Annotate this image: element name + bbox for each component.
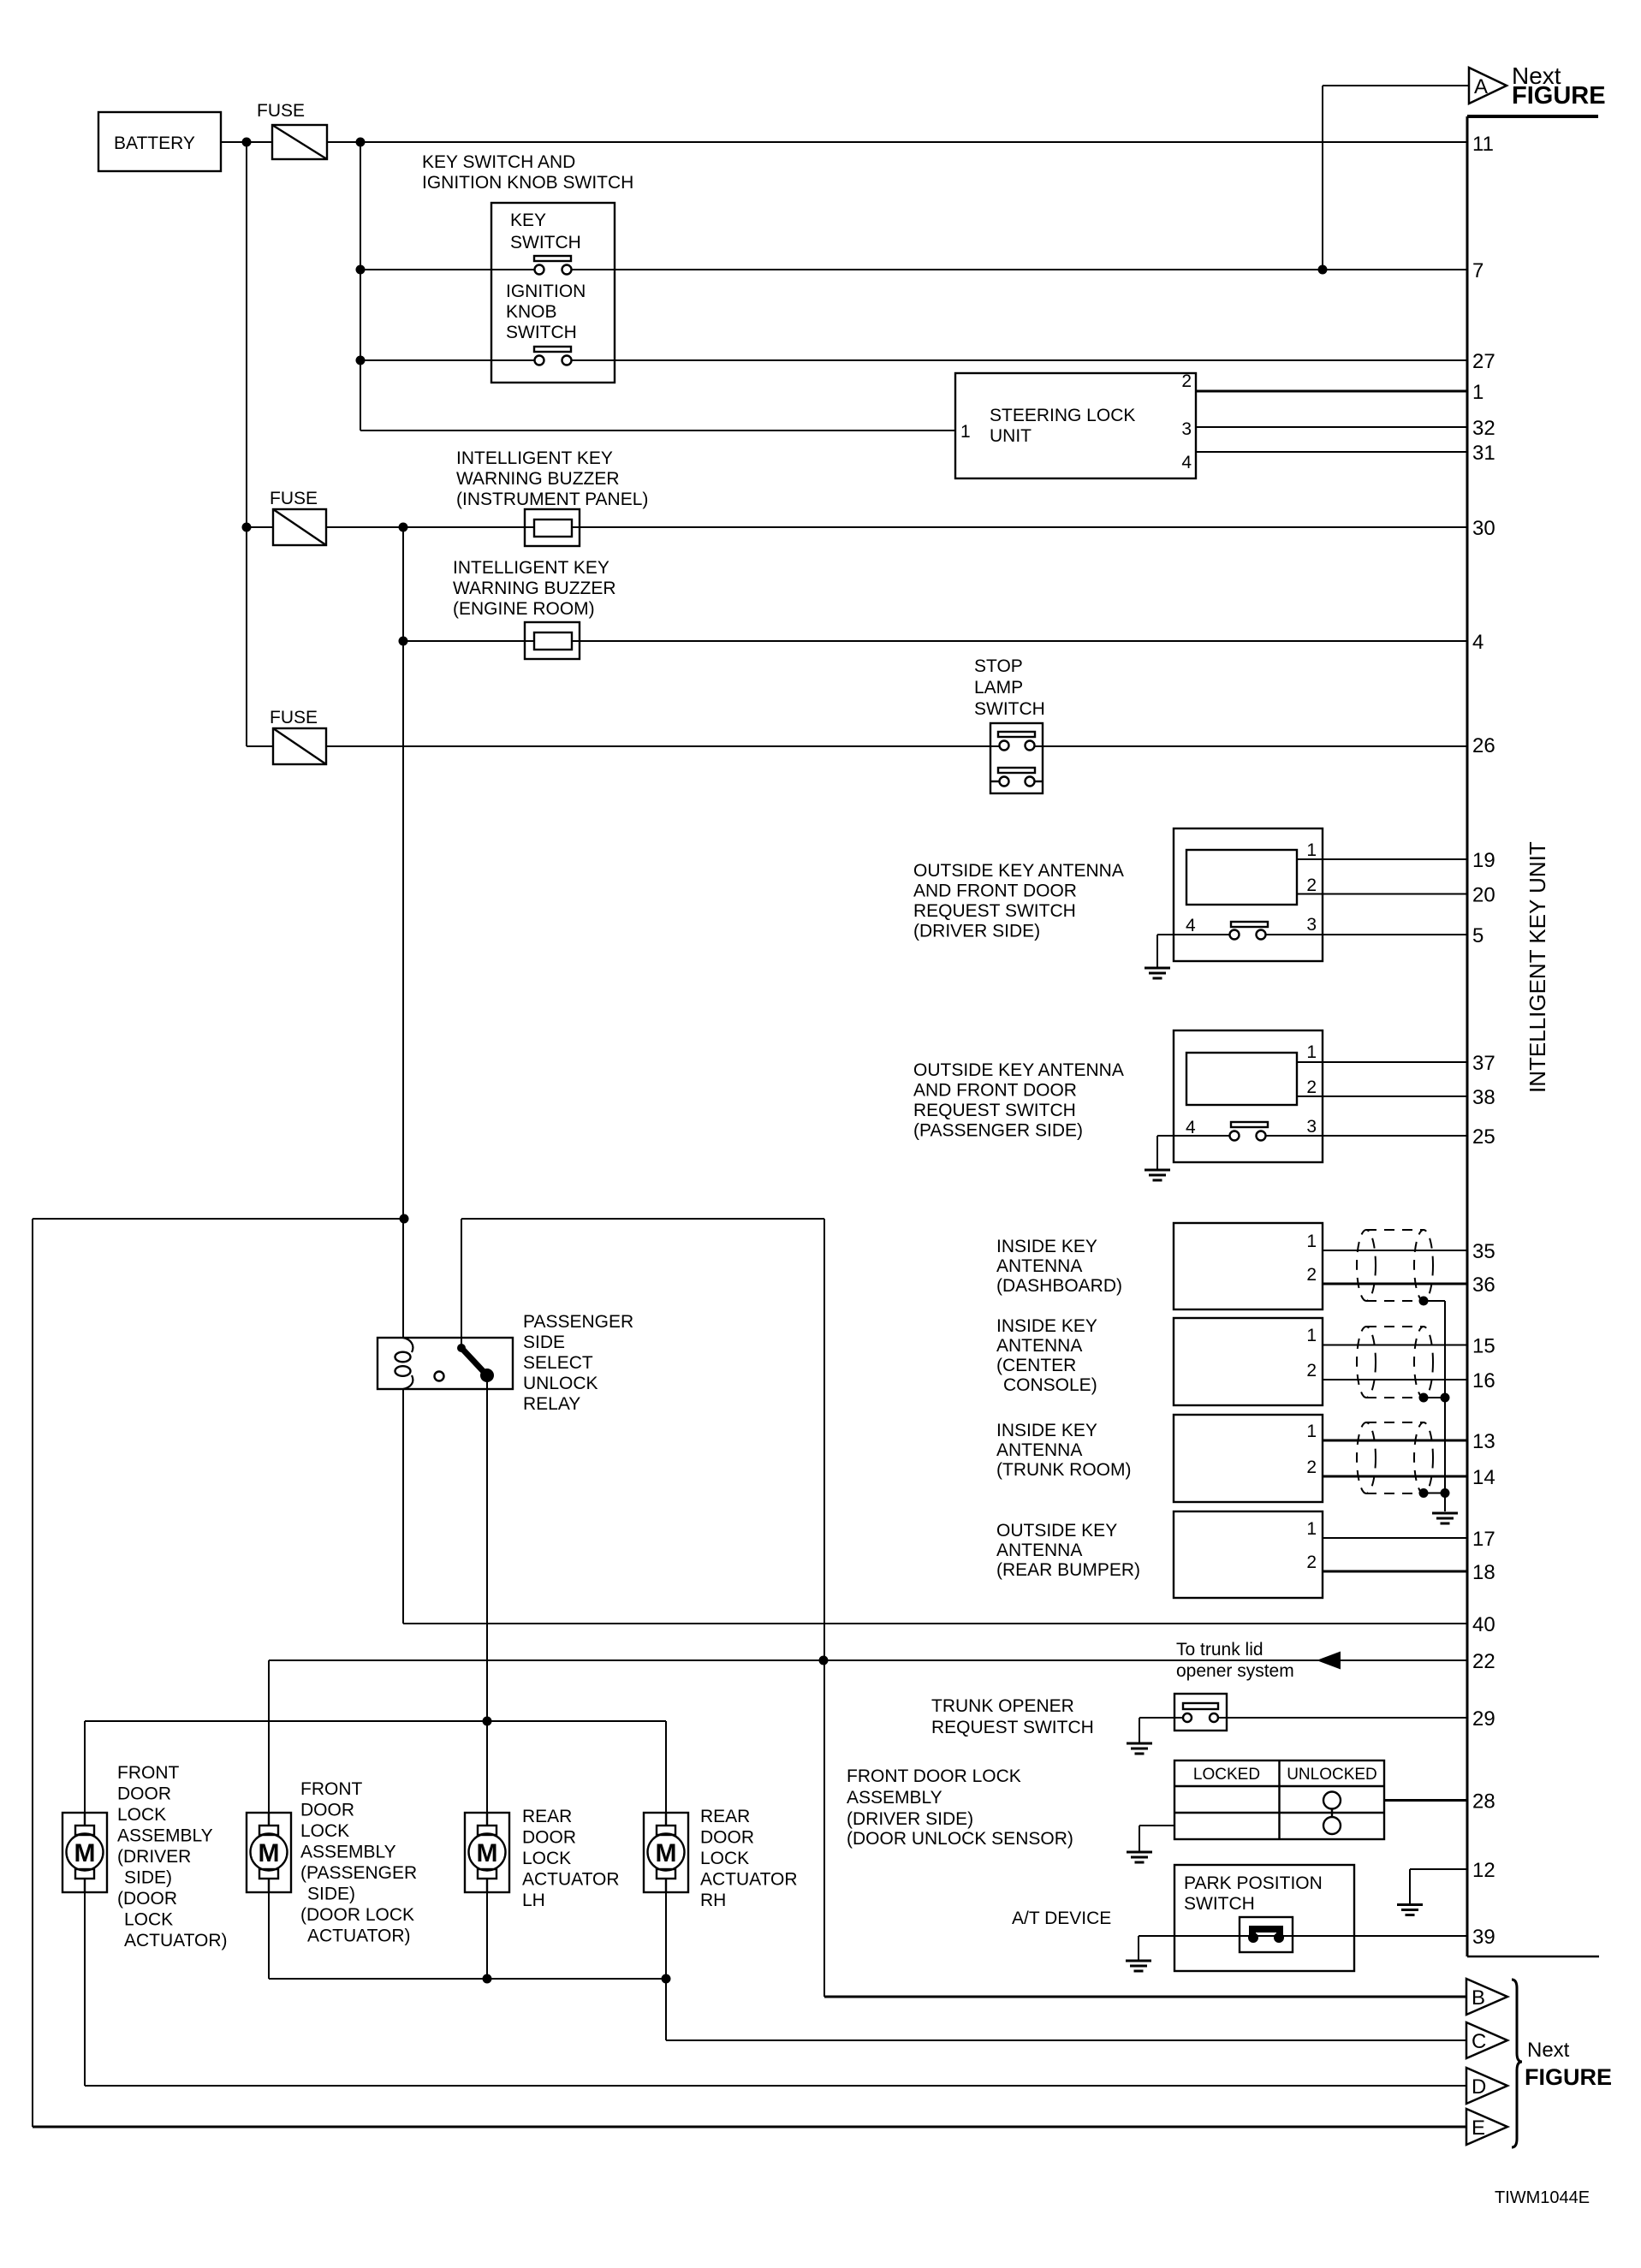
svg-text:ASSEMBLY: ASSEMBLY [117, 1826, 213, 1846]
svg-text:LAMP: LAMP [974, 678, 1023, 698]
svg-text:(DRIVER SIDE): (DRIVER SIDE) [847, 1809, 973, 1829]
svg-text:KEY: KEY [510, 211, 546, 230]
svg-text:REAR: REAR [522, 1807, 572, 1826]
svg-text:REQUEST SWITCH: REQUEST SWITCH [913, 1101, 1076, 1120]
svg-text:11: 11 [1472, 133, 1494, 156]
svg-text:27: 27 [1472, 350, 1495, 373]
svg-text:ASSEMBLY: ASSEMBLY [847, 1788, 942, 1808]
svg-text:32: 32 [1472, 417, 1495, 440]
svg-text:ANTENNA: ANTENNA [996, 1336, 1082, 1356]
svg-text:(DOOR UNLOCK SENSOR): (DOOR UNLOCK SENSOR) [847, 1829, 1073, 1849]
svg-text:B: B [1472, 1986, 1485, 2010]
svg-text:LOCK: LOCK [300, 1821, 349, 1841]
svg-text:LOCKED: LOCKED [1193, 1766, 1260, 1784]
svg-text:2: 2 [1306, 1078, 1317, 1097]
svg-text:29: 29 [1472, 1707, 1495, 1731]
svg-text:AND FRONT DOOR: AND FRONT DOOR [913, 882, 1077, 901]
svg-text:3: 3 [1306, 1117, 1317, 1137]
svg-text:LOCK: LOCK [700, 1849, 749, 1868]
svg-text:(INSTRUMENT PANEL): (INSTRUMENT PANEL) [456, 490, 648, 509]
svg-text:SIDE: SIDE [523, 1333, 565, 1352]
svg-text:FRONT DOOR LOCK: FRONT DOOR LOCK [847, 1766, 1021, 1786]
svg-text:38: 38 [1472, 1086, 1495, 1109]
svg-text:1: 1 [1306, 1519, 1317, 1539]
svg-text:REQUEST SWITCH: REQUEST SWITCH [913, 901, 1076, 921]
svg-text:(DOOR LOCK: (DOOR LOCK [300, 1905, 414, 1925]
svg-text:INSIDE KEY: INSIDE KEY [996, 1316, 1097, 1336]
svg-text:1: 1 [1306, 1326, 1317, 1345]
svg-text:FRONT: FRONT [117, 1763, 179, 1783]
svg-text:RELAY: RELAY [523, 1394, 580, 1414]
svg-text:1: 1 [1306, 840, 1317, 860]
svg-text:ANTENNA: ANTENNA [996, 1440, 1082, 1460]
svg-text:ACTUATOR: ACTUATOR [522, 1870, 620, 1890]
svg-text:INTELLIGENT KEY UNIT: INTELLIGENT KEY UNIT [1525, 841, 1550, 1093]
svg-text:WARNING BUZZER: WARNING BUZZER [453, 579, 616, 598]
svg-text:KEY SWITCH AND: KEY SWITCH AND [422, 152, 575, 172]
svg-text:INSIDE KEY: INSIDE KEY [996, 1237, 1097, 1256]
svg-text:M: M [656, 1839, 677, 1867]
svg-text:KNOB: KNOB [506, 302, 557, 322]
svg-text:2: 2 [1306, 876, 1317, 895]
svg-text:DOOR: DOOR [522, 1828, 576, 1848]
svg-text:SWITCH: SWITCH [510, 233, 581, 252]
svg-text:7: 7 [1472, 259, 1483, 282]
svg-text:TIWM1044E: TIWM1044E [1495, 2188, 1590, 2207]
svg-text:STOP: STOP [974, 656, 1023, 676]
svg-text:IGNITION: IGNITION [506, 282, 586, 301]
svg-text:SIDE): SIDE) [124, 1868, 172, 1888]
svg-text:4: 4 [1186, 1118, 1196, 1137]
svg-text:18: 18 [1472, 1561, 1495, 1584]
svg-text:LOCK: LOCK [522, 1849, 571, 1868]
svg-text:FUSE: FUSE [270, 708, 318, 727]
svg-text:ACTUATOR): ACTUATOR) [124, 1931, 228, 1950]
svg-text:ACTUATOR: ACTUATOR [700, 1870, 798, 1890]
svg-text:CONSOLE): CONSOLE) [1003, 1375, 1097, 1395]
svg-text:ANTENNA: ANTENNA [996, 1256, 1082, 1276]
svg-text:22: 22 [1472, 1650, 1495, 1673]
svg-text:1: 1 [960, 422, 971, 442]
svg-text:OUTSIDE KEY ANTENNA: OUTSIDE KEY ANTENNA [913, 861, 1124, 881]
svg-text:5: 5 [1472, 924, 1483, 947]
svg-text:FUSE: FUSE [257, 101, 305, 121]
svg-text:2: 2 [1306, 1361, 1317, 1380]
svg-text:INTELLIGENT KEY: INTELLIGENT KEY [456, 448, 613, 468]
svg-text:SWITCH: SWITCH [506, 323, 577, 342]
svg-text:IGNITION KNOB SWITCH: IGNITION KNOB SWITCH [422, 173, 633, 193]
svg-text:15: 15 [1472, 1335, 1495, 1358]
svg-text:FIGURE: FIGURE [1525, 2064, 1612, 2090]
svg-text:REAR: REAR [700, 1807, 750, 1826]
svg-text:37: 37 [1472, 1052, 1495, 1075]
svg-text:INSIDE KEY: INSIDE KEY [996, 1421, 1097, 1440]
svg-text:19: 19 [1472, 849, 1495, 872]
svg-text:LOCK: LOCK [124, 1910, 173, 1930]
svg-text:M: M [477, 1839, 498, 1867]
svg-text:36: 36 [1472, 1274, 1495, 1297]
svg-text:FIGURE: FIGURE [1512, 82, 1606, 110]
svg-text:(PASSENGER SIDE): (PASSENGER SIDE) [913, 1121, 1083, 1141]
svg-text:OUTSIDE KEY: OUTSIDE KEY [996, 1521, 1117, 1541]
svg-text:RH: RH [700, 1891, 726, 1910]
svg-text:LOCK: LOCK [117, 1805, 166, 1825]
svg-text:OUTSIDE KEY ANTENNA: OUTSIDE KEY ANTENNA [913, 1060, 1124, 1080]
svg-text:E: E [1472, 2117, 1485, 2140]
svg-text:35: 35 [1472, 1240, 1495, 1263]
svg-text:17: 17 [1472, 1528, 1495, 1551]
svg-text:D: D [1472, 2075, 1486, 2099]
svg-text:ASSEMBLY: ASSEMBLY [300, 1843, 396, 1862]
svg-text:SWITCH: SWITCH [1184, 1894, 1255, 1914]
svg-text:(TRUNK ROOM): (TRUNK ROOM) [996, 1460, 1131, 1480]
svg-text:20: 20 [1472, 884, 1495, 907]
svg-text:3: 3 [1181, 419, 1192, 439]
svg-text:12: 12 [1472, 1859, 1495, 1882]
svg-text:SWITCH: SWITCH [974, 699, 1045, 719]
svg-text:(DRIVER SIDE): (DRIVER SIDE) [913, 922, 1040, 941]
svg-text:26: 26 [1472, 734, 1495, 757]
svg-text:opener system: opener system [1176, 1661, 1294, 1681]
svg-text:UNLOCKED: UNLOCKED [1287, 1766, 1377, 1784]
svg-text:DOOR: DOOR [700, 1828, 754, 1848]
svg-text:(CENTER: (CENTER [996, 1356, 1076, 1375]
svg-text:(REAR BUMPER): (REAR BUMPER) [996, 1560, 1140, 1580]
svg-text:40: 40 [1472, 1613, 1495, 1636]
svg-text:INTELLIGENT KEY: INTELLIGENT KEY [453, 558, 609, 578]
svg-text:(PASSENGER: (PASSENGER [300, 1863, 417, 1883]
svg-text:2: 2 [1306, 1458, 1317, 1477]
svg-text:2: 2 [1306, 1553, 1317, 1572]
svg-text:ANTENNA: ANTENNA [996, 1541, 1082, 1560]
svg-text:2: 2 [1306, 1265, 1317, 1285]
svg-text:(DOOR: (DOOR [117, 1889, 177, 1909]
svg-text:(DASHBOARD): (DASHBOARD) [996, 1276, 1122, 1296]
svg-text:1: 1 [1306, 1232, 1317, 1251]
svg-text:BATTERY: BATTERY [114, 134, 195, 153]
svg-text:FRONT: FRONT [300, 1779, 362, 1799]
svg-text:13: 13 [1472, 1430, 1495, 1453]
svg-text:30: 30 [1472, 517, 1495, 540]
svg-text:14: 14 [1472, 1466, 1495, 1489]
svg-text:28: 28 [1472, 1790, 1495, 1814]
svg-text:WARNING BUZZER: WARNING BUZZER [456, 469, 620, 489]
svg-text:3: 3 [1306, 915, 1317, 935]
svg-text:LH: LH [522, 1891, 545, 1910]
svg-text:AND FRONT DOOR: AND FRONT DOOR [913, 1081, 1077, 1101]
svg-text:SIDE): SIDE) [307, 1885, 355, 1904]
svg-text:(DRIVER: (DRIVER [117, 1847, 191, 1867]
svg-text:SELECT: SELECT [523, 1353, 593, 1373]
svg-text:31: 31 [1472, 442, 1495, 465]
svg-text:FUSE: FUSE [270, 489, 318, 508]
svg-text:TRUNK OPENER: TRUNK OPENER [931, 1696, 1074, 1716]
svg-text:Next: Next [1527, 2039, 1570, 2062]
svg-text:(ENGINE ROOM): (ENGINE ROOM) [453, 599, 595, 619]
svg-text:4: 4 [1186, 916, 1196, 935]
svg-text:M: M [74, 1839, 96, 1867]
svg-text:4: 4 [1472, 631, 1483, 654]
svg-text:DOOR: DOOR [117, 1784, 171, 1804]
svg-text:A: A [1474, 75, 1488, 98]
svg-text:M: M [259, 1839, 280, 1867]
svg-text:4: 4 [1181, 453, 1192, 472]
svg-text:16: 16 [1472, 1369, 1495, 1392]
svg-text:1: 1 [1472, 381, 1483, 404]
svg-text:25: 25 [1472, 1125, 1495, 1149]
svg-text:PARK POSITION: PARK POSITION [1184, 1873, 1323, 1893]
svg-text:UNLOCK: UNLOCK [523, 1374, 598, 1393]
svg-text:C: C [1472, 2030, 1486, 2053]
svg-text:STEERING LOCK: STEERING LOCK [990, 406, 1135, 425]
svg-text:REQUEST SWITCH: REQUEST SWITCH [931, 1718, 1094, 1737]
svg-text:2: 2 [1181, 371, 1192, 391]
svg-text:1: 1 [1306, 1042, 1317, 1062]
svg-text:PASSENGER: PASSENGER [523, 1312, 633, 1332]
svg-text:1: 1 [1306, 1422, 1317, 1441]
svg-text:39: 39 [1472, 1926, 1495, 1949]
svg-text:DOOR: DOOR [300, 1801, 354, 1820]
svg-text:To trunk lid: To trunk lid [1176, 1640, 1263, 1659]
svg-text:ACTUATOR): ACTUATOR) [307, 1927, 411, 1946]
svg-text:A/T DEVICE: A/T DEVICE [1012, 1909, 1111, 1928]
svg-text:UNIT: UNIT [990, 426, 1032, 446]
